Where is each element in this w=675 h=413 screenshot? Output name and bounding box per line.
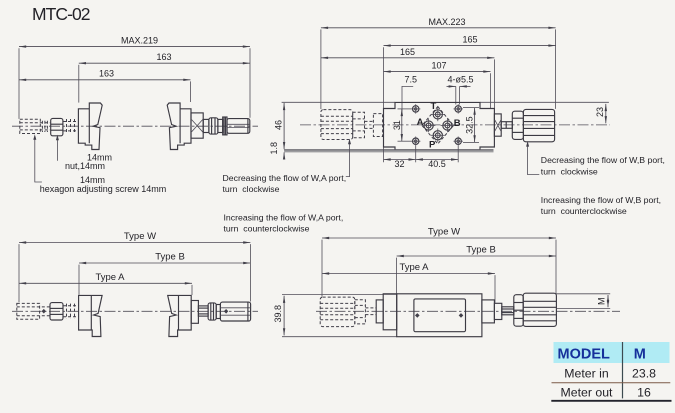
extension line knob2 [190, 81, 192, 102]
svg-text:MAX.219: MAX.219 [121, 36, 158, 46]
centerline [12, 310, 258, 312]
hexagon adjusting screw (hidden) [17, 303, 40, 319]
hidden knob (left) [320, 297, 355, 327]
hidden coupling [373, 114, 382, 137]
svg-text:32: 32 [394, 159, 404, 169]
svg-text:163: 163 [156, 52, 171, 62]
svg-text:7.5: 7.5 [405, 75, 418, 85]
hidden hex nut [353, 112, 365, 137]
table bottom border [551, 400, 671, 402]
svg-text:turn counterclockwise: turn counterclockwise [541, 206, 627, 216]
nameplate screw right [459, 313, 464, 318]
svg-text:M: M [597, 297, 607, 305]
stem [203, 119, 209, 132]
svg-text:hexagon adjusting screw 14mm: hexagon adjusting screw 14mm [40, 184, 167, 194]
svg-text:A: A [417, 117, 424, 128]
end cylinder [220, 302, 250, 321]
dim 1.8 [283, 152, 285, 159]
extension line left [18, 48, 20, 119]
svg-text:165: 165 [400, 47, 415, 57]
svg-text:turn clockwise: turn clockwise [223, 184, 280, 194]
dim 165 upper [384, 45, 556, 47]
svg-text:M: M [634, 346, 646, 362]
hidden knob (left, plan) [321, 110, 353, 140]
dim MAX.223 [321, 27, 556, 29]
extension lines [18, 244, 20, 302]
row divider [552, 382, 671, 384]
hidden stem between nut and knob [63, 121, 78, 123]
end cylinder [227, 119, 250, 134]
valve body plan outline [384, 102, 495, 150]
extension line right [249, 48, 251, 118]
svg-text:40.5: 40.5 [428, 159, 446, 169]
leader screw label [35, 137, 42, 182]
svg-text:46: 46 [274, 120, 284, 130]
dim 163 upper [79, 62, 250, 64]
knurled knob [523, 293, 556, 326]
port pattern dashed diamond [422, 107, 454, 144]
extension line knob1 [78, 65, 80, 103]
svg-text:Increasing the flow of W,A por: Increasing the flow of W,A port, [224, 212, 344, 222]
dim 107 [384, 71, 491, 73]
small collar [494, 303, 501, 319]
knob hex collar [514, 295, 523, 327]
knob 3 (wing handle down) [79, 295, 103, 336]
stem [198, 306, 208, 316]
svg-text:T: T [430, 101, 436, 112]
svg-text:MTC-02: MTC-02 [32, 4, 91, 24]
svg-text:B: B [454, 118, 461, 129]
svg-text:MAX.223: MAX.223 [428, 17, 465, 27]
svg-text:32.5: 32.5 [464, 116, 474, 134]
hexagon adjusting screw (hidden) [20, 119, 41, 133]
dim Type W [19, 242, 250, 244]
dim Type B [397, 255, 556, 257]
dim 32.5 [474, 108, 476, 143]
knurled ring [223, 117, 227, 135]
leader W,A [346, 141, 350, 177]
svg-text:Type B: Type B [466, 245, 496, 256]
dim 39.8 [282, 293, 397, 295]
dim 40.5 bottom [416, 159, 459, 161]
column divider [622, 342, 624, 398]
dim Type B [79, 262, 250, 264]
svg-text:Decreasing the flow of W,A por: Decreasing the flow of W,A port, [223, 173, 347, 183]
coupling with cross slot [191, 113, 203, 138]
coupling [191, 301, 198, 324]
screw hole top-right [454, 104, 463, 113]
coupling with cross slot (right) [494, 114, 501, 136]
dim 32 bottom [384, 159, 416, 161]
nameplate [414, 299, 466, 332]
centerline diamond marker [42, 309, 46, 314]
svg-text:Type W: Type W [428, 227, 460, 238]
centerline diamond marker 2 [224, 309, 228, 314]
dim MAX.219 [19, 46, 250, 48]
svg-text:nut,14mm: nut,14mm [65, 161, 105, 171]
port T [431, 108, 445, 122]
knob 2 (mirrored wing handle) [167, 103, 191, 150]
nameplate screw left [415, 313, 420, 318]
valve body [397, 294, 482, 337]
dim Type W [322, 237, 556, 239]
svg-text:P: P [429, 139, 436, 150]
svg-text:turn counterclockwise: turn counterclockwise [224, 223, 310, 233]
svg-text:Meter in: Meter in [564, 367, 609, 381]
lock nut [209, 118, 218, 134]
header background [554, 342, 670, 363]
centerline [12, 125, 258, 127]
coupling [376, 300, 383, 323]
svg-text:23: 23 [595, 107, 605, 117]
svg-text:Type A: Type A [399, 262, 429, 273]
extension lines [321, 240, 323, 297]
thread hatch [41, 121, 43, 132]
shaft [501, 122, 512, 129]
knob 4 (mirrored) [168, 295, 192, 336]
dim Type A [322, 273, 495, 275]
hidden hex nut [355, 300, 366, 324]
dim 46 [283, 103, 285, 149]
centerline [300, 124, 610, 126]
dim 165 lower [321, 57, 495, 59]
hidden stem [365, 307, 376, 309]
centerline [316, 310, 620, 312]
dim M [557, 293, 611, 295]
extension lines top [320, 29, 322, 109]
svg-text:4-ø5.5: 4-ø5.5 [447, 75, 473, 85]
screw hole top-left [411, 104, 420, 113]
svg-text:23.8: 23.8 [632, 367, 656, 381]
dim Type A [19, 282, 192, 284]
end cap [482, 300, 495, 323]
hidden stem between nut and knob [63, 305, 79, 307]
svg-text:107: 107 [431, 61, 446, 71]
port B [441, 119, 455, 133]
nut [50, 303, 63, 320]
spacer ring [216, 305, 220, 319]
svg-text:Type W: Type W [124, 231, 156, 242]
svg-text:31: 31 [392, 120, 402, 130]
svg-text:Meter out: Meter out [561, 385, 614, 399]
knurled knob [523, 109, 554, 141]
svg-text:Increasing the flow of W,B por: Increasing the flow of W,B port, [541, 195, 661, 205]
screw hole bottom-right [454, 137, 463, 146]
svg-text:16: 16 [637, 385, 651, 399]
extension lines bottom [383, 148, 385, 163]
mounting plate (1.8) [284, 150, 493, 153]
screw hole bottom-left [411, 137, 420, 146]
svg-text:MODEL: MODEL [558, 346, 611, 362]
spacer ring [218, 119, 223, 132]
svg-text:165: 165 [462, 35, 477, 45]
body left section [383, 294, 397, 330]
svg-text:Type B: Type B [155, 252, 185, 263]
knob hex collar [512, 111, 523, 139]
svg-text:Type A: Type A [95, 272, 125, 283]
leader W,B [528, 143, 540, 174]
svg-text:39.8: 39.8 [273, 305, 283, 323]
svg-text:163: 163 [99, 69, 114, 79]
lock nut [208, 303, 216, 320]
svg-text:turn clockwise: turn clockwise [541, 166, 598, 176]
dim 163 lower [19, 79, 191, 81]
port A [422, 119, 436, 133]
dim 23 [605, 104, 607, 123]
svg-text:Decreasing the flow of W,B por: Decreasing the flow of W,B port, [541, 155, 665, 165]
knob 1 (wing handle) [78, 103, 102, 150]
dim 31 [401, 109, 403, 141]
nut 14mm [51, 118, 63, 135]
leader nut label [56, 137, 58, 161]
body top edge extension line [282, 101, 395, 103]
shaft [502, 307, 514, 315]
hidden stem [365, 120, 374, 122]
svg-text:1.8: 1.8 [269, 142, 279, 155]
port P [431, 129, 445, 143]
